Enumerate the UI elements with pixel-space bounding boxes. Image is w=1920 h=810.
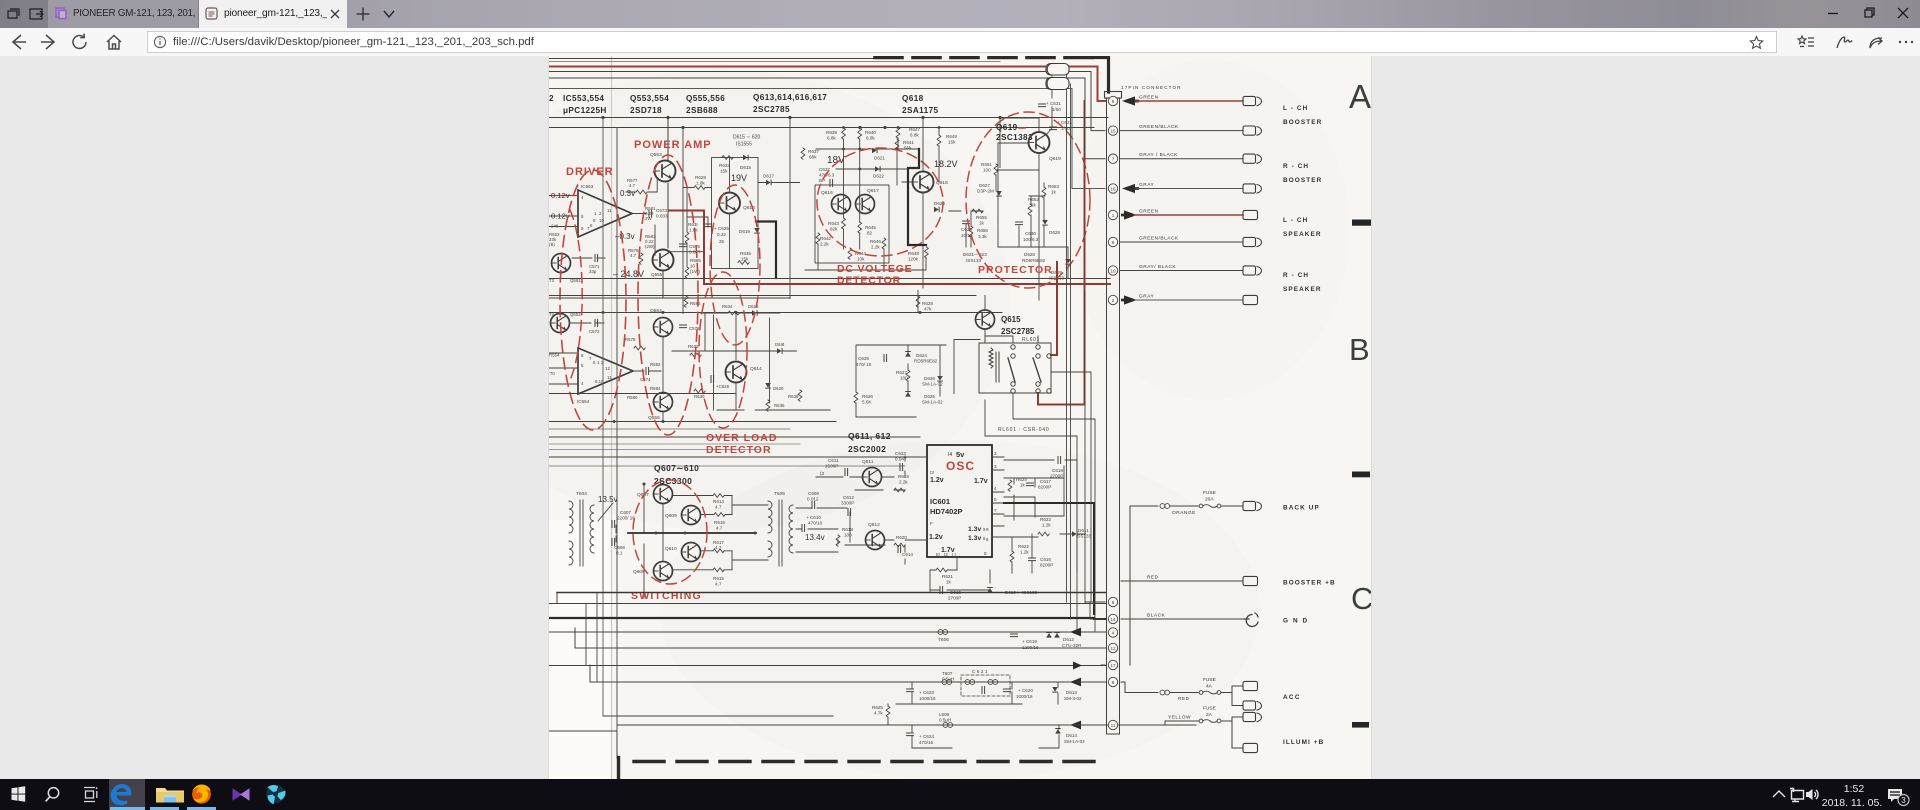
- capacitor inside C621: [982, 687, 985, 694]
- svg-text:Q611, 612: Q611, 612: [848, 431, 891, 441]
- svg-text:BOOSTER: BOOSTER: [1283, 177, 1322, 184]
- transistor Q617: [856, 195, 875, 214]
- svg-text:R633: R633: [719, 163, 730, 168]
- svg-text:T604: T604: [576, 491, 587, 497]
- svg-text:D620: D620: [773, 386, 784, 391]
- svg-text:6.8k: 6.8k: [910, 133, 919, 138]
- svg-text:6: 6: [1112, 99, 1115, 104]
- pin 10: [1108, 266, 1117, 275]
- svg-text:SM-1A-02: SM-1A-02: [922, 382, 943, 387]
- svg-text:R634: R634: [722, 304, 733, 309]
- svg-text:– 24.8V: – 24.8V: [613, 269, 644, 279]
- pin 11: [1108, 720, 1117, 729]
- svg-text:20A: 20A: [1205, 497, 1214, 503]
- pin 12: [1108, 643, 1117, 652]
- wire upper left column x603: [602, 118, 604, 716]
- svg-text:A: A: [1349, 78, 1371, 115]
- svg-text:1.2v: 1.2v: [930, 477, 944, 484]
- svg-text:10: 10: [1110, 268, 1116, 273]
- svg-text:1000/16: 1000/16: [919, 696, 936, 701]
- svg-text:0.033: 0.033: [656, 214, 668, 219]
- svg-text:1.2k: 1.2k: [1020, 550, 1029, 555]
- transistor Q615: [976, 310, 995, 329]
- svg-text:R628: R628: [922, 301, 933, 306]
- svg-text:0.5μH: 0.5μH: [939, 718, 951, 723]
- svg-text:C: C: [1351, 581, 1371, 616]
- svg-text:R630: R630: [694, 394, 705, 399]
- fuse FU603 2A: [1199, 719, 1221, 723]
- svg-text:2SA1175: 2SA1175: [902, 106, 939, 115]
- net GREEN L-CH speaker: arrow out of pin1: [1121, 210, 1137, 219]
- svg-text:+ C620: + C620: [1018, 688, 1033, 693]
- svg-text:D617: D617: [763, 174, 774, 179]
- coil ACC: [1160, 690, 1170, 695]
- svg-text:DC VOLTEGE: DC VOLTEGE: [837, 263, 912, 275]
- svg-text:SM-1A-02: SM-1A-02: [922, 400, 943, 405]
- svg-text:3.3k: 3.3k: [978, 234, 987, 239]
- svg-text:470/16: 470/16: [919, 740, 933, 745]
- svg-text:Q613,614,616,617: Q613,614,616,617: [753, 93, 827, 102]
- relay RL601: [979, 343, 1051, 393]
- capacitor C573: [649, 210, 652, 217]
- address bar: [0, 28, 1920, 57]
- rail y716: [603, 715, 833, 717]
- pin 1: [1108, 210, 1117, 219]
- svg-text:D626: D626: [924, 376, 935, 381]
- connector lug ILLUMI upper: [1243, 712, 1262, 721]
- wire Q618 stage: [902, 118, 939, 289]
- svg-text:C629: C629: [961, 227, 972, 232]
- wire osc right nets: [1004, 460, 1086, 573]
- svg-text:+ C619: + C619: [1022, 639, 1037, 644]
- svg-text:6.8k: 6.8k: [827, 136, 836, 141]
- wire C571 row: [572, 257, 605, 259]
- diode D619: [754, 228, 760, 234]
- wire BOOSTER +B row: [1121, 580, 1243, 582]
- svg-text:SPEAKER: SPEAKER: [1283, 286, 1322, 293]
- svg-text:C613: C613: [895, 451, 906, 456]
- svg-text:2SC2785: 2SC2785: [1001, 327, 1035, 336]
- junction dots DC cell: [842, 126, 940, 170]
- svg-text:Q615: Q615: [1001, 315, 1021, 324]
- svg-text:7: 7: [1112, 157, 1115, 162]
- svg-text:D3P-2M: D3P-2M: [977, 189, 994, 194]
- svg-text:1500P: 1500P: [825, 464, 838, 469]
- wire C572 row: [571, 322, 604, 324]
- wire thick black step left: [756, 222, 776, 279]
- svg-text:8: 8: [984, 551, 987, 556]
- svg-text:6.8k: 6.8k: [866, 136, 875, 141]
- svg-text:T606: T606: [938, 637, 949, 643]
- IC601 pin numbers: [930, 451, 997, 557]
- svg-text:4: 4: [1112, 630, 1115, 635]
- svg-text:R626: R626: [862, 394, 873, 399]
- junction dots switching: [643, 483, 757, 535]
- pin 15: [1108, 126, 1117, 135]
- wire GREEN/BLACK row: [1120, 130, 1243, 132]
- pin 5: [1108, 597, 1117, 606]
- rail y682: [590, 681, 1106, 683]
- svg-text:15: 15: [1110, 128, 1116, 133]
- transistor Q608: [654, 562, 673, 581]
- svg-text:R636: R636: [774, 403, 785, 408]
- svg-text:9: 9: [986, 527, 989, 532]
- net arrow y665: [1073, 662, 1082, 670]
- transistor Q611: [863, 468, 882, 487]
- svg-text:B: B: [1349, 332, 1370, 367]
- svg-text:G N D: G N D: [1283, 618, 1309, 625]
- fuse FU602 4A: [1199, 691, 1221, 695]
- wire top dashed heavy bus: [875, 56, 1093, 60]
- diode D621: [872, 148, 878, 154]
- svg-text:8: 8: [1112, 680, 1115, 685]
- svg-text:C575: C575: [689, 244, 700, 249]
- svg-text:L - CH: L - CH: [1283, 217, 1308, 224]
- wire Q614 area: [717, 313, 830, 411]
- diode D629 ISS133: [1065, 259, 1071, 265]
- wire BACK UP feed: [1130, 506, 1158, 665]
- section mark C-end: [1352, 722, 1369, 728]
- svg-text:SM-1A-02: SM-1A-02: [1064, 739, 1085, 744]
- wire bottom osc nets: [930, 557, 990, 592]
- connector lug pin7: [1243, 154, 1262, 163]
- svg-text:9: 9: [1112, 240, 1115, 245]
- svg-text:470/ 10: 470/ 10: [856, 362, 872, 367]
- transistor Q552: [551, 314, 570, 333]
- wire opamp out to C573: [632, 213, 646, 215]
- svg-text:13.4v: 13.4v: [805, 533, 825, 542]
- svg-text:Q555: Q555: [651, 272, 663, 277]
- svg-text:GRAY: GRAY: [1139, 294, 1155, 300]
- svg-text:R652: R652: [1028, 197, 1039, 202]
- wire right columns to pins: [1077, 291, 1105, 683]
- red ellipse left edge: [570, 210, 582, 380]
- svg-text:RD5R6E82: RD5R6E82: [914, 359, 938, 364]
- svg-text:82: 82: [867, 231, 873, 236]
- rail y421: [549, 421, 836, 423]
- svg-text:1.2k: 1.2k: [1042, 523, 1051, 528]
- svg-text:4.7: 4.7: [716, 526, 723, 531]
- svg-text:(3: (3: [820, 471, 825, 476]
- svg-text:R641: R641: [903, 140, 914, 145]
- wire top thin bus a: [549, 58, 877, 60]
- wire cell bottom y704: [896, 703, 1022, 705]
- svg-text:2SC2785: 2SC2785: [753, 105, 790, 114]
- svg-text:1.3v: 1.3v: [968, 526, 981, 533]
- wire GRAY/BLACK row: [1120, 158, 1243, 160]
- svg-text:R621: R621: [942, 574, 953, 579]
- box DC cell: [815, 185, 889, 263]
- svg-text:IC554: IC554: [577, 399, 590, 404]
- svg-text:ILLUMI +B: ILLUMI +B: [1283, 739, 1324, 746]
- red ellipse driver: [560, 170, 626, 430]
- connector lug pin6: [1243, 96, 1262, 105]
- wire y355 branch: [672, 313, 797, 351]
- ground lug GND: [1244, 613, 1258, 626]
- rail y437: [549, 436, 920, 438]
- svg-text:C609: C609: [808, 491, 819, 496]
- capacitor C572: [595, 320, 598, 327]
- red ellipse protector: [966, 112, 1090, 288]
- svg-text:2SD718: 2SD718: [630, 106, 662, 115]
- svg-text:2: 2: [994, 451, 997, 456]
- svg-text:BOOSTER: BOOSTER: [1283, 119, 1322, 126]
- svg-text:BP: BP: [819, 178, 825, 183]
- pin 17: [1108, 660, 1117, 669]
- svg-text:GREEN/BLACK: GREEN/BLACK: [1139, 236, 1179, 242]
- svg-text:1: 1: [1112, 213, 1115, 218]
- svg-text:19V: 19V: [731, 173, 747, 183]
- wire long column x1066: [1066, 75, 1068, 602]
- svg-text:12: 12: [605, 366, 610, 371]
- svg-text:R584: R584: [650, 386, 661, 391]
- svg-text:C616: C616: [1040, 557, 1051, 562]
- wire power stage verticals: [668, 158, 730, 269]
- wire drops to bottom rail: [888, 682, 1059, 748]
- wire input 0.12v lower: [549, 215, 578, 217]
- svg-text:R629: R629: [695, 175, 706, 180]
- pin 6: [1108, 96, 1117, 105]
- svg-text:+C626: +C626: [716, 384, 730, 389]
- svg-text:BOOSTER +B: BOOSTER +B: [1283, 580, 1336, 587]
- svg-text:15k: 15k: [948, 140, 956, 145]
- svg-text:R619: R619: [898, 474, 909, 479]
- wire bottom left L: [549, 731, 617, 758]
- section mark B-C: [1352, 472, 1370, 478]
- wire maroon feedback: [669, 211, 704, 285]
- svg-text:Q614: Q614: [750, 366, 762, 372]
- wire ACC feed: [1121, 682, 1158, 693]
- svg-text:IS1555: IS1555: [736, 142, 752, 148]
- svg-text:Q610: Q610: [665, 546, 677, 552]
- svg-text:R - CH: R - CH: [1283, 163, 1309, 170]
- svg-text:YELLOW: YELLOW: [1168, 715, 1191, 721]
- svg-text:C617: C617: [1040, 479, 1051, 484]
- svg-text:GRAY / BLACK: GRAY / BLACK: [1139, 152, 1178, 158]
- choke L631 body: [1046, 64, 1069, 76]
- svg-text:2.2k: 2.2k: [820, 242, 829, 247]
- op-amp IC554: [578, 348, 633, 394]
- wire ILLUMI feed: [1120, 721, 1199, 725]
- pin 9: [1108, 237, 1117, 246]
- svg-text:14: 14: [1110, 617, 1116, 622]
- svg-text:HD7402P: HD7402P: [930, 507, 963, 516]
- svg-text:470/16: 470/16: [808, 521, 822, 526]
- svg-text:1200/16: 1200/16: [1022, 645, 1039, 650]
- wire Q553 collector: [667, 118, 669, 160]
- pin labels IC554: [581, 353, 612, 386]
- svg-text:C574: C574: [640, 377, 651, 382]
- svg-text:0.1: 0.1: [616, 551, 623, 556]
- svg-text:R623: R623: [1040, 517, 1051, 522]
- svg-text:2.2k: 2.2k: [871, 245, 880, 250]
- svg-text:D625: D625: [924, 394, 935, 399]
- svg-text:R620: R620: [896, 535, 907, 540]
- svg-text:4: 4: [994, 486, 997, 491]
- svg-text:Q607∼610: Q607∼610: [654, 463, 699, 473]
- connector lug pin15: [1243, 126, 1262, 135]
- svg-text:DRIVER: DRIVER: [566, 166, 614, 178]
- wire GND row: [1121, 618, 1244, 620]
- svg-text:C611: C611: [828, 458, 839, 463]
- wire black mid bus pair: [549, 278, 1110, 280]
- svg-text:1.7v: 1.7v: [941, 547, 955, 554]
- svg-text:0.3v: 0.3v: [620, 189, 635, 198]
- rail y449 blue: [549, 449, 760, 451]
- svg-text:16: 16: [1110, 186, 1116, 191]
- wire switching to OSC net: [796, 508, 927, 564]
- svg-text:C573: C573: [656, 208, 667, 213]
- svg-text:ORANGE: ORANGE: [1172, 510, 1196, 516]
- svg-text:OSC: OSC: [946, 459, 975, 473]
- svg-text:4A: 4A: [1206, 684, 1213, 690]
- svg-text:DETECTOR: DETECTOR: [706, 444, 772, 456]
- wire GRAY row: [1136, 188, 1243, 190]
- svg-text:17: 17: [1110, 663, 1116, 668]
- svg-text:248: 248: [551, 224, 559, 229]
- pin 2: [1108, 295, 1117, 304]
- svg-text:D614: D614: [1066, 733, 1077, 738]
- diode D623: [934, 207, 940, 213]
- connector lug pin9: [1243, 237, 1262, 246]
- transistor Q614: [726, 362, 747, 383]
- svg-text:R656: R656: [977, 228, 988, 233]
- svg-text:D628: D628: [1024, 252, 1035, 257]
- svg-text:18V: 18V: [827, 155, 845, 166]
- svg-text:2: 2: [1112, 298, 1115, 303]
- svg-text:GRAY/ BLACK: GRAY/ BLACK: [1139, 264, 1176, 270]
- svg-text:10: 10: [599, 218, 604, 223]
- svg-text:2A: 2A: [1206, 712, 1213, 718]
- svg-text:SPEAKER: SPEAKER: [1283, 231, 1322, 238]
- svg-text:+ C631: + C631: [1046, 101, 1061, 106]
- wire ACC split: [1221, 686, 1243, 706]
- wire heavy rail y618: [549, 617, 1094, 619]
- svg-text:Q609: Q609: [665, 513, 677, 519]
- svg-text:3300P: 3300P: [841, 501, 854, 506]
- svg-text:R649: R649: [946, 134, 957, 139]
- svg-text:3: 3: [994, 464, 997, 469]
- rail y457: [549, 456, 927, 458]
- connector lug ACC lower: [1243, 701, 1262, 710]
- transistor Q610: [682, 543, 701, 562]
- rail y648: [575, 647, 1106, 649]
- svg-text:2SC1383: 2SC1383: [996, 133, 1033, 142]
- red ellipse Q613: [710, 185, 760, 345]
- svg-text:1k: 1k: [946, 580, 952, 585]
- svg-text:4.7: 4.7: [630, 253, 637, 258]
- svg-text:1.7v: 1.7v: [974, 478, 988, 485]
- svg-text:(B): (B): [549, 242, 555, 247]
- wire heavy osc to pin5: [1004, 503, 1105, 619]
- wire inputs IC554: [549, 353, 578, 384]
- wire thick step protector: [908, 149, 926, 245]
- transformer T605: [768, 500, 793, 566]
- svg-text:D619: D619: [739, 229, 750, 234]
- svg-text:R651: R651: [981, 162, 992, 167]
- svg-text:Q553,554: Q553,554: [630, 94, 669, 103]
- svg-text:D612: D612: [1063, 637, 1074, 642]
- svg-text:12: 12: [1110, 646, 1116, 651]
- wire ILLUMI split: [1221, 717, 1243, 748]
- svg-text:C576: C576: [689, 326, 700, 331]
- svg-text:+ C623: + C623: [919, 690, 934, 695]
- wires DC det cell: [805, 138, 926, 270]
- wire input 0.12v upper: [549, 195, 578, 197]
- svg-text:8200P: 8200P: [1038, 485, 1051, 490]
- wire bus to pin7: [549, 78, 1105, 159]
- wire fuse to lug: [1221, 505, 1243, 507]
- svg-text:2200/ 16: 2200/ 16: [617, 516, 635, 521]
- svg-text:5: 5: [1112, 600, 1115, 605]
- connector lug ILLUMI lower: [1243, 743, 1258, 752]
- wire D617 row: [758, 182, 800, 184]
- box 19V cell: [712, 158, 759, 269]
- svg-text:Q612: Q612: [868, 522, 880, 528]
- svg-text:5.6K: 5.6K: [862, 400, 872, 405]
- svg-text:'70: '70: [549, 371, 555, 376]
- svg-text:2W: 2W: [645, 216, 652, 221]
- svg-text:μPC1225H: μPC1225H: [563, 106, 607, 115]
- svg-text:IC553: IC553: [581, 184, 594, 189]
- svg-text:IC601: IC601: [930, 497, 950, 506]
- svg-text:100: 100: [844, 533, 852, 538]
- svg-text:R655: R655: [976, 215, 987, 220]
- connector lug pin16: [1243, 184, 1262, 193]
- svg-text:Q553: Q553: [650, 152, 662, 158]
- wire column x790: [789, 118, 791, 299]
- svg-text:Q617: Q617: [867, 188, 879, 194]
- coil T back-up: [1160, 504, 1170, 509]
- svg-text:3: 3: [1901, 796, 1906, 805]
- svg-text:SM-3-02: SM-3-02: [1064, 696, 1082, 701]
- svg-text:C628: C628: [858, 356, 869, 361]
- diode zener D628: [1042, 220, 1048, 226]
- wire left drops bottom: [586, 593, 597, 683]
- svg-text:33p: 33p: [589, 269, 597, 274]
- svg-text:ISS133: ISS133: [966, 258, 982, 263]
- svg-text:T605: T605: [774, 491, 785, 497]
- transistor Q609: [682, 506, 701, 525]
- wire input pins bottom: [549, 226, 578, 228]
- connector lug booster+B: [1243, 576, 1258, 585]
- heavy bottom dashed rail: [634, 760, 1105, 763]
- net arrow pin8 row: [1070, 678, 1081, 687]
- svg-text:R639: R639: [826, 130, 837, 135]
- svg-text:BACK UP: BACK UP: [1283, 505, 1320, 512]
- rail y429: [549, 428, 790, 430]
- svg-text:F: F: [930, 521, 933, 526]
- svg-text:Q554: Q554: [650, 308, 662, 314]
- svg-text:5v: 5v: [956, 450, 965, 459]
- coil pair C621: [965, 680, 975, 685]
- svg-text:D6I8: D6I8: [775, 342, 785, 347]
- svg-text:RD5R6E82: RD5R6E82: [1022, 258, 1046, 263]
- diode D617: [766, 180, 772, 186]
- junction dots mid: [613, 311, 738, 423]
- wire Q615 net: [549, 291, 985, 418]
- svg-text:D613: D613: [1066, 690, 1077, 695]
- svg-text:+ C625: + C625: [714, 226, 729, 231]
- svg-text:FUSE: FUSE: [1203, 677, 1216, 683]
- svg-text:R635: R635: [740, 251, 751, 256]
- svg-text:R646: R646: [870, 239, 881, 244]
- rail y312: [549, 312, 1002, 314]
- transformer T604: [569, 500, 594, 566]
- svg-text:ACC: ACC: [1283, 694, 1301, 701]
- svg-text:1.2v: 1.2v: [929, 534, 943, 541]
- transistor Q554: [654, 318, 673, 337]
